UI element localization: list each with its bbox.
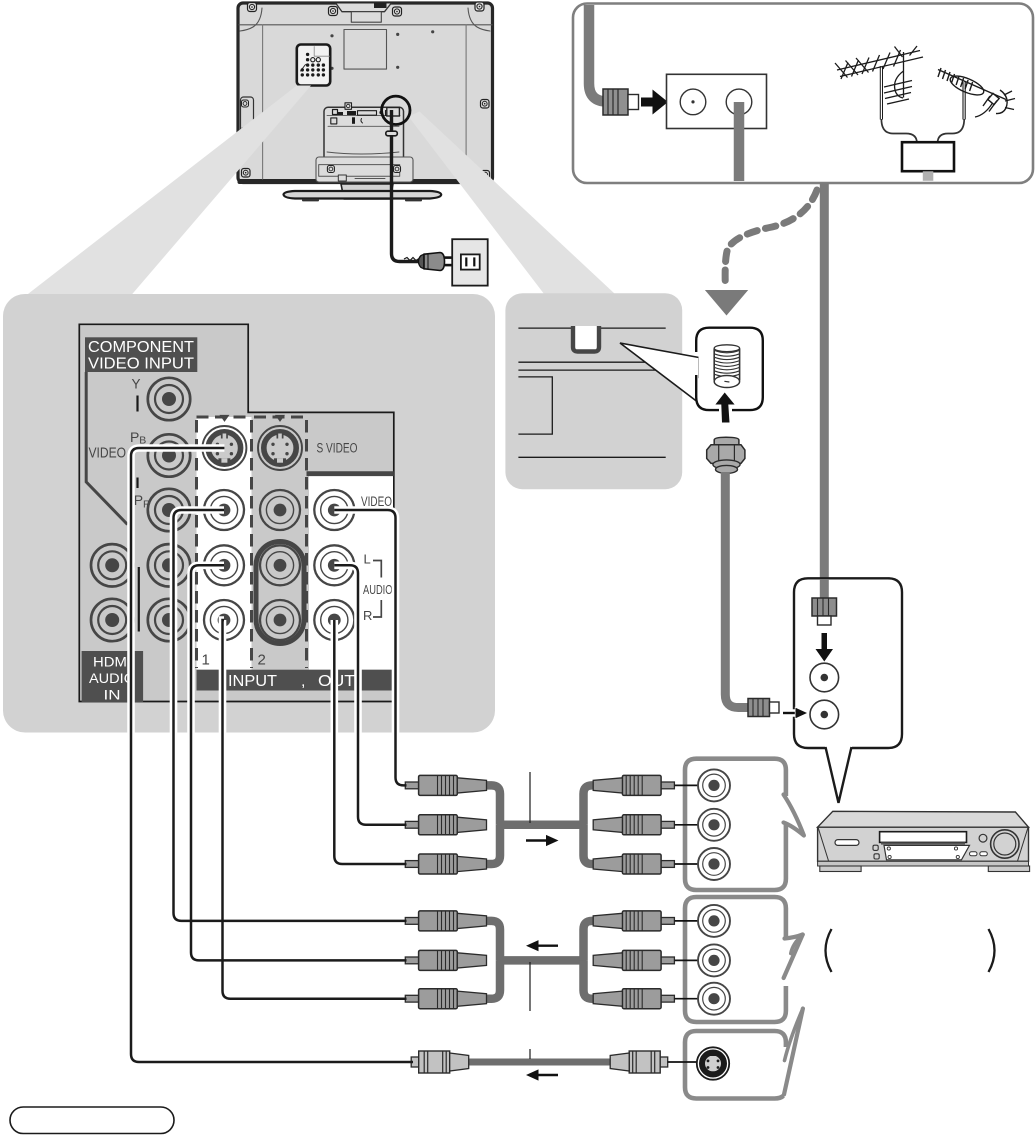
big gray zoom box: [3, 294, 495, 733]
ANT bubble tail edges: [826, 747, 852, 803]
COMPONENT VIDEO INPUT label box: [85, 337, 197, 372]
s-video connector input1: [202, 426, 246, 470]
incoming coax cable: [589, 5, 607, 102]
fill terminal bubble interior: [699, 330, 761, 408]
combiner stub: [923, 171, 934, 181]
group1 plug row1 left: [405, 775, 486, 795]
VCR device: [818, 811, 1030, 871]
group1 plug row3 left: [405, 854, 486, 874]
VCR front face: [818, 827, 1029, 861]
ANT bubble: [794, 578, 902, 748]
bubble 2: [685, 897, 786, 1022]
svg-text:HDMI: HDMI: [93, 655, 131, 670]
ANT IN jack: [810, 663, 839, 692]
input1 video jack: [204, 490, 244, 530]
group2 plug row2 right: [593, 950, 674, 970]
TV handle dark grip: [374, 3, 387, 8]
input2 R jack: [260, 600, 300, 640]
bubble 1 tail: [784, 795, 804, 836]
black arrow to wall plate: [641, 90, 668, 115]
group3 wire to bubble: [668, 1061, 714, 1063]
hdmi audio jack L1: [91, 544, 133, 586]
gray side-view bubble: [505, 293, 682, 489]
small round button: [979, 834, 987, 842]
F connector in bubble: [812, 598, 837, 625]
label link line PB-PR: [136, 478, 138, 489]
long cable down to VCR bubble: [820, 183, 829, 601]
antenna info box: [573, 4, 1033, 184]
back small dot 3: [431, 30, 434, 33]
combiner box: [902, 142, 954, 171]
cassette slot: [880, 832, 967, 843]
svg-text:2: 2: [258, 652, 266, 669]
arrow into ANT bubble: [783, 708, 807, 718]
TV right seam: [465, 25, 467, 179]
TV label sticker: [351, 12, 381, 23]
TV corner curve left: [240, 8, 262, 31]
wire s-video in1: [131, 448, 413, 1062]
VCR bottom strip: [818, 861, 1029, 866]
bubble2 jack video: [698, 905, 730, 937]
group1 wires to bubble: [675, 785, 715, 864]
group2 plug row1 left: [405, 911, 486, 931]
group2 plug row3 left: [405, 989, 486, 1009]
bubble1 jack R: [698, 848, 730, 880]
side view line 1: [518, 327, 665, 329]
svg-text:S VIDEO: S VIDEO: [317, 440, 358, 455]
outlet socket: [461, 254, 480, 269]
pill button: [835, 840, 859, 846]
stand base foot right: [405, 199, 422, 202]
s-video connector input2: [258, 426, 302, 470]
outlet slot right: [473, 257, 475, 266]
terminal panel outline: [79, 324, 394, 701]
coax F plug below: [707, 437, 745, 473]
AC plug: [419, 254, 425, 269]
coax cable end connector: [748, 699, 779, 717]
group1 plug row2 left: [405, 815, 486, 835]
group1 divider mark: [529, 772, 531, 823]
screw right-mid: [481, 100, 490, 109]
down arrow in bubble: [816, 633, 834, 662]
component jack PR: [148, 489, 190, 531]
empty label pill: [10, 1107, 174, 1134]
VHF antenna: [835, 46, 923, 120]
wire out L: [334, 565, 406, 825]
OUT section top thick line: [307, 471, 394, 476]
outlet slot left: [465, 257, 467, 266]
UHF antenna: [938, 68, 1015, 120]
dashed vertical line col1 left: [195, 420, 198, 668]
input2 video jack: [260, 490, 300, 530]
AV terminal panel: [297, 45, 330, 86]
screw top-2: [329, 7, 338, 16]
HDMI AUDIO IN box: [82, 651, 144, 702]
wire input1 R: [223, 620, 407, 999]
svg-text:INPUT: INPUT: [228, 673, 277, 690]
svg-text:L: L: [364, 552, 371, 567]
label link line below PR: [138, 567, 140, 632]
group3 plug left: [411, 1051, 469, 1073]
left zoom beam: [26, 86, 311, 296]
triangle marker col1: [220, 415, 230, 422]
screw tab above recess: [345, 103, 352, 110]
input1 R jack: [204, 600, 244, 640]
VCR side creases: [818, 828, 828, 861]
F-type screw terminal: [714, 345, 739, 388]
component jack PB: [148, 434, 190, 476]
pointer wedge to terminal bubble: [620, 343, 699, 403]
small buttons: [873, 845, 878, 850]
screw top-3: [393, 7, 402, 16]
group3 direction arrow: [526, 1069, 558, 1080]
wall plate jack 1: [680, 89, 706, 115]
audio2 pill outline: [256, 542, 304, 644]
svg-text:IN: IN: [104, 688, 121, 703]
TV stand neck: [341, 184, 393, 199]
VCR foot right: [988, 866, 1029, 872]
wire input1 video: [174, 510, 407, 921]
side view line 2: [518, 361, 665, 363]
stand mount recess: [316, 157, 413, 182]
oval buttons: [970, 852, 978, 856]
power cord: [392, 110, 423, 262]
bubble2 jack L: [698, 944, 730, 976]
wall plate: [667, 74, 767, 128]
left side terminal cover: [241, 97, 254, 138]
screw top-4: [475, 2, 484, 11]
triangle marker col2: [275, 415, 285, 422]
connector recess: [324, 107, 404, 161]
group1 plug row3 right: [593, 854, 674, 874]
TV left seam: [262, 25, 264, 179]
side view slot rect: [518, 377, 552, 434]
TV bottom dark band: [238, 179, 494, 184]
hdmi audio jack R2: [148, 599, 190, 641]
antenna terminal slot: [573, 326, 599, 352]
ANT bubble tail: [826, 746, 852, 803]
dashed vertical line col2 right: [305, 420, 308, 668]
TV stand base: [284, 191, 442, 199]
plug prong bottom: [445, 264, 453, 267]
bubble1 jack L: [698, 809, 730, 841]
TV body: [238, 3, 493, 183]
antenna terminal bubble: [696, 328, 763, 410]
group2 plug row2 left: [405, 950, 486, 970]
out video jack: [314, 490, 354, 530]
hdmi audio jack L2: [148, 544, 190, 586]
out R jack: [314, 600, 354, 640]
screw top-1: [248, 3, 257, 12]
ANT OUT jack: [810, 700, 839, 729]
dashed vertical line col1-col2: [250, 420, 253, 668]
magnifier circle: [382, 96, 410, 124]
group3 plug right: [610, 1051, 668, 1073]
bubble3 s-video jack: [697, 1047, 729, 1079]
group2 divider mark: [529, 962, 531, 1011]
wall plate jack 2: [726, 89, 752, 115]
wire input1 L: [191, 565, 407, 960]
up arrow into terminal: [715, 393, 734, 423]
VCR top face: [818, 811, 1029, 827]
svg-text:,: ,: [301, 673, 305, 690]
stand base foot left: [302, 199, 319, 202]
group2 plug row3 right: [593, 989, 674, 1009]
side view line 4: [518, 456, 665, 458]
hdmi audio jack R1: [91, 599, 133, 641]
dashed top edge col2: [254, 416, 307, 419]
TV corner curve right: [468, 8, 490, 31]
dashed route curve: [725, 190, 817, 285]
recess mini connectors: [331, 110, 391, 124]
wire out R: [334, 620, 406, 864]
front plate: [884, 845, 970, 859]
wall outlet: [452, 239, 488, 285]
VCR foot left: [820, 866, 861, 872]
white column INPUT1: [197, 417, 252, 670]
AV panel dot grid: [301, 53, 326, 77]
group2 wires to bubble: [675, 921, 715, 999]
svg-text:1: 1: [202, 652, 210, 669]
group1 plug row2 right: [593, 815, 674, 835]
right zoom beam: [409, 112, 616, 297]
bubble 3: [685, 1031, 786, 1099]
bubble1 jack video: [698, 769, 730, 801]
dashed top edge col1: [197, 416, 252, 419]
back small dot 4: [330, 67, 333, 70]
coax cable to lower right: [725, 472, 748, 708]
bubble2 jack R: [698, 983, 730, 1015]
cord clip: [386, 131, 398, 136]
wire out video: [334, 510, 406, 785]
svg-text:R: R: [363, 608, 372, 623]
group2 plug row1 right: [593, 911, 674, 931]
group1 cable bracket left: [485, 785, 599, 864]
bubble 1: [685, 759, 786, 890]
big gray arrowhead: [705, 290, 748, 316]
screw bottom-left: [242, 169, 251, 178]
input1 L jack: [204, 545, 244, 585]
screw bottom-right: [481, 171, 490, 180]
parentheses hint: [826, 929, 832, 972]
AC inlet in circle: [387, 108, 400, 117]
UHF antenna lead wire: [938, 119, 965, 144]
cable end in bubble: [820, 579, 829, 600]
TV top strip line: [239, 24, 492, 26]
knob: [991, 830, 1019, 858]
TV handle: [336, 4, 391, 12]
input2 L jack: [260, 545, 300, 585]
plug prong top: [445, 256, 453, 259]
svg-text:Y: Y: [132, 376, 142, 392]
svg-text:VIDEO: VIDEO: [89, 446, 127, 462]
VHF antenna lead wire: [881, 119, 917, 144]
group2 direction arrow: [526, 940, 558, 951]
label link line Y-PB: [136, 396, 138, 412]
back small dot 2: [396, 33, 399, 36]
bracket L: [373, 561, 381, 578]
side view line 3: [518, 369, 665, 371]
bubble 2 tail: [784, 935, 803, 979]
svg-text:AUDIO: AUDIO: [363, 583, 393, 597]
svg-text:COMPONENT: COMPONENT: [88, 339, 195, 356]
coax connector on cable: [603, 89, 639, 115]
component section polygon edge: [86, 372, 127, 525]
back small dot 5: [396, 66, 399, 69]
svg-text:VIDEO INPUT: VIDEO INPUT: [88, 356, 195, 373]
svg-text:P: P: [134, 492, 143, 508]
INPUT OUT bar: [197, 670, 394, 691]
back small dot 1: [330, 34, 333, 37]
group1 direction arrow: [526, 835, 559, 846]
bracket R: [373, 600, 381, 617]
component jack Y: [148, 378, 190, 420]
svg-text:P: P: [130, 429, 139, 445]
bubble 3 tail: [784, 1009, 803, 1095]
cable from wall jack down: [734, 102, 745, 181]
VESA square: [344, 30, 387, 70]
white column OUT: [309, 474, 393, 670]
group3 divider mark: [529, 1049, 531, 1059]
cord wiggle near plug: [404, 258, 419, 261]
group1 plug row1 right: [593, 775, 674, 795]
out L jack: [314, 545, 354, 585]
group3 cable: [465, 1059, 613, 1066]
